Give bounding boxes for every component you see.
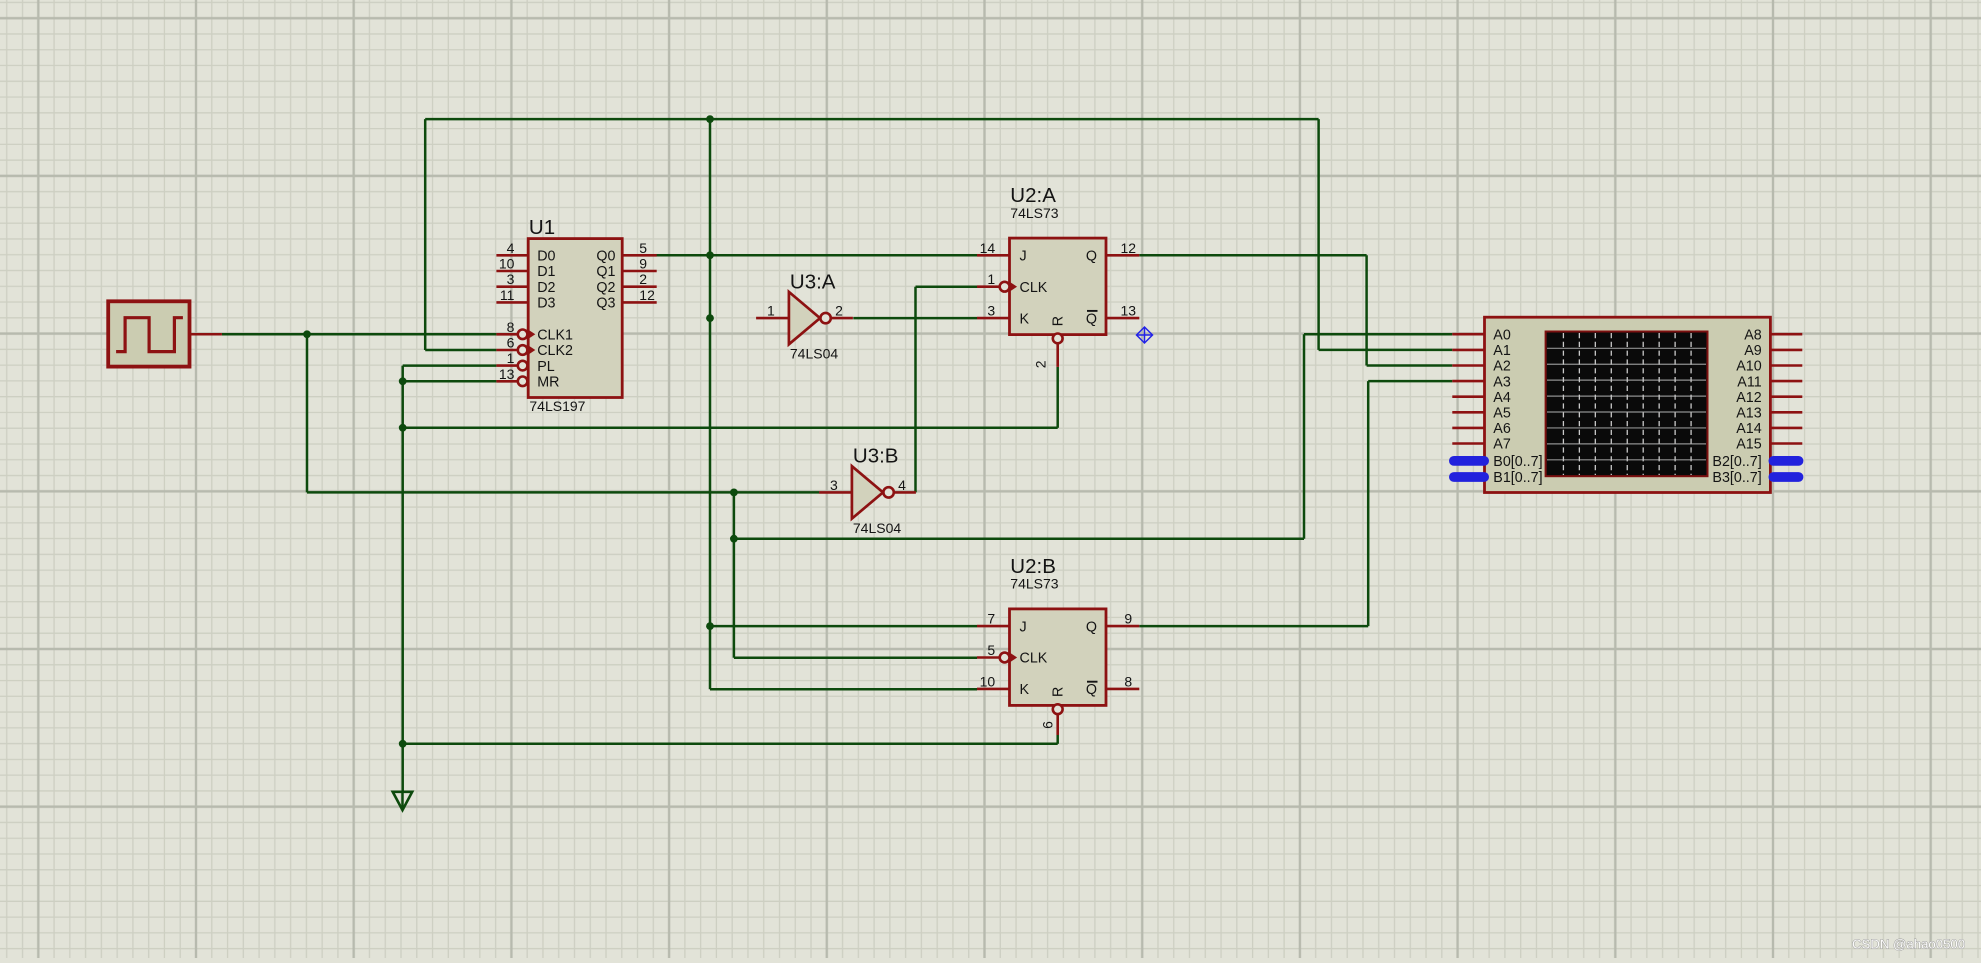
svg-text:12: 12 <box>639 287 655 303</box>
svg-text:10: 10 <box>980 673 996 689</box>
svg-text:A11: A11 <box>1737 374 1761 390</box>
svg-text:K: K <box>1020 311 1030 327</box>
svg-text:R: R <box>1051 316 1067 326</box>
svg-text:4: 4 <box>507 240 515 256</box>
svg-text:A13: A13 <box>1736 406 1761 422</box>
svg-text:U1: U1 <box>529 216 555 239</box>
svg-text:13: 13 <box>499 366 515 382</box>
svg-text:74LS04: 74LS04 <box>853 520 901 536</box>
svg-text:A8: A8 <box>1744 327 1762 343</box>
svg-text:CLK: CLK <box>1020 280 1048 296</box>
svg-text:5: 5 <box>987 642 995 658</box>
svg-text:CLK1: CLK1 <box>537 328 573 344</box>
svg-text:A14: A14 <box>1736 421 1761 437</box>
svg-text:Q: Q <box>1086 682 1097 698</box>
svg-text:J: J <box>1020 249 1027 265</box>
svg-text:5: 5 <box>639 240 647 256</box>
svg-text:Q: Q <box>1086 311 1097 327</box>
svg-text:U3:B: U3:B <box>853 445 899 468</box>
svg-text:10: 10 <box>499 256 515 272</box>
svg-text:9: 9 <box>1124 611 1132 627</box>
svg-text:Q0: Q0 <box>596 249 615 265</box>
svg-text:A6: A6 <box>1493 421 1511 437</box>
svg-text:MR: MR <box>537 375 559 391</box>
svg-text:Q1: Q1 <box>596 264 615 280</box>
svg-text:Q3: Q3 <box>596 296 615 312</box>
svg-text:Q: Q <box>1086 619 1097 635</box>
svg-text:12: 12 <box>1121 240 1137 256</box>
svg-text:Q: Q <box>1086 249 1097 265</box>
svg-text:A9: A9 <box>1744 343 1762 359</box>
svg-text:11: 11 <box>500 287 515 303</box>
svg-text:8: 8 <box>507 319 515 335</box>
svg-text:A12: A12 <box>1736 390 1761 406</box>
svg-text:A15: A15 <box>1736 437 1761 453</box>
svg-text:74LS73: 74LS73 <box>1010 205 1058 221</box>
svg-text:A10: A10 <box>1736 359 1761 375</box>
svg-text:3: 3 <box>987 303 995 319</box>
svg-text:B2[0..7]: B2[0..7] <box>1712 454 1761 470</box>
svg-text:D0: D0 <box>537 249 555 265</box>
svg-text:CLK: CLK <box>1020 651 1048 667</box>
svg-text:74LS73: 74LS73 <box>1010 576 1058 592</box>
svg-text:U2:B: U2:B <box>1010 555 1056 578</box>
svg-text:7: 7 <box>987 611 995 627</box>
svg-text:8: 8 <box>1124 673 1132 689</box>
svg-text:3: 3 <box>830 477 838 493</box>
svg-text:A2: A2 <box>1493 359 1511 375</box>
svg-text:U3:A: U3:A <box>790 270 836 293</box>
svg-text:J: J <box>1020 619 1027 635</box>
svg-text:3: 3 <box>507 271 515 287</box>
svg-text:A3: A3 <box>1493 374 1511 390</box>
svg-text:D1: D1 <box>537 264 555 280</box>
svg-text:CSDN @ahao0500: CSDN @ahao0500 <box>1852 937 1965 952</box>
svg-text:74LS04: 74LS04 <box>790 346 838 362</box>
svg-text:2: 2 <box>639 271 647 287</box>
svg-text:2: 2 <box>1033 360 1049 368</box>
svg-text:1: 1 <box>767 303 775 319</box>
svg-text:A7: A7 <box>1493 437 1511 453</box>
svg-text:2: 2 <box>835 303 843 319</box>
svg-text:A5: A5 <box>1493 406 1511 422</box>
svg-text:A0: A0 <box>1493 327 1511 343</box>
svg-text:A4: A4 <box>1493 390 1511 406</box>
svg-text:1: 1 <box>507 350 515 366</box>
svg-text:B3[0..7]: B3[0..7] <box>1712 470 1761 486</box>
svg-text:U2:A: U2:A <box>1010 184 1056 207</box>
svg-text:9: 9 <box>639 256 647 272</box>
svg-text:6: 6 <box>1039 721 1055 729</box>
svg-text:1: 1 <box>987 271 995 287</box>
svg-text:CLK2: CLK2 <box>537 343 573 359</box>
svg-text:D2: D2 <box>537 280 555 296</box>
svg-text:6: 6 <box>507 335 515 351</box>
svg-text:R: R <box>1051 687 1067 697</box>
svg-text:A1: A1 <box>1493 343 1511 359</box>
svg-text:4: 4 <box>898 477 906 493</box>
svg-text:D3: D3 <box>537 296 555 312</box>
svg-text:K: K <box>1020 682 1030 698</box>
svg-text:B1[0..7]: B1[0..7] <box>1493 470 1542 486</box>
svg-text:14: 14 <box>980 240 996 256</box>
svg-text:B0[0..7]: B0[0..7] <box>1493 454 1542 470</box>
svg-text:74LS197: 74LS197 <box>529 398 585 414</box>
svg-text:Q2: Q2 <box>596 280 615 296</box>
svg-text:PL: PL <box>537 359 555 375</box>
svg-text:13: 13 <box>1121 303 1137 319</box>
